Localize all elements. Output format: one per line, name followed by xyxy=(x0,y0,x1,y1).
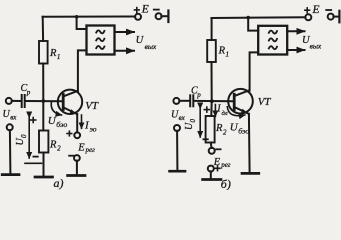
wire R2 to Ereg terminal b xyxy=(210,143,213,149)
capacitor Cp plate 1 b xyxy=(189,95,191,106)
svg-text:R: R xyxy=(218,46,226,57)
wire R1 to base junction a xyxy=(42,64,44,102)
label - of U0 b xyxy=(203,138,207,140)
wire emitter down a xyxy=(76,114,78,132)
label U0 b (rotated) xyxy=(184,119,197,131)
terminal input top circle a xyxy=(6,98,12,104)
tilde 1 box a xyxy=(96,30,104,33)
svg-text:1: 1 xyxy=(226,51,230,59)
svg-text:бэо: бэо xyxy=(56,120,67,129)
wire rail to box a xyxy=(77,17,87,29)
block filter box a xyxy=(87,26,115,55)
svg-text:0: 0 xyxy=(20,134,28,138)
pedestal bar R2 a xyxy=(35,176,53,179)
wire base to R2 b xyxy=(210,102,212,117)
arrow Ieo a xyxy=(81,115,83,128)
arrow Idl b xyxy=(214,105,216,117)
arrow output 2 b xyxy=(287,49,304,51)
pedestal bar emitter b xyxy=(242,172,259,175)
svg-text:1: 1 xyxy=(57,53,61,61)
wire stub right of -E b xyxy=(333,16,338,18)
svg-text:VT: VT xyxy=(258,96,272,108)
label + of U0 a xyxy=(31,119,36,121)
label - of E b xyxy=(326,9,331,11)
label + of E a xyxy=(135,9,140,11)
terminal Ereg bottom circle b xyxy=(208,166,214,172)
wire stub right of -E a xyxy=(161,15,167,17)
svg-text:E: E xyxy=(77,143,85,154)
capacitor Cp plate 1 a xyxy=(21,95,23,107)
junction base node a xyxy=(41,99,45,103)
svg-text:вх: вх xyxy=(179,114,186,122)
transistor VT a circle xyxy=(58,90,82,114)
svg-text:вх: вх xyxy=(10,113,17,121)
label - of U0 a xyxy=(33,156,37,158)
svg-text:2: 2 xyxy=(57,145,61,153)
label + of E b xyxy=(305,9,310,11)
svg-text:E: E xyxy=(311,4,319,16)
arrow U0 b xyxy=(199,109,201,138)
label U0 a (rotated) xyxy=(15,134,28,146)
wire emitter down b xyxy=(248,114,251,172)
terminal Ereg bottom circle a xyxy=(74,155,80,161)
arrow Ubeo curved b xyxy=(227,107,245,116)
tilde 3 box a xyxy=(96,46,104,49)
arrow output 1 a xyxy=(115,31,135,33)
junction base node b xyxy=(210,99,214,103)
transistor VT b emitter arrowhead xyxy=(241,109,249,114)
label + of U0 b xyxy=(204,109,209,111)
wire base to R2 a xyxy=(42,101,44,131)
tilde 2 box a xyxy=(96,38,104,41)
svg-text:вых: вых xyxy=(310,41,322,50)
wire rail to box b xyxy=(248,18,258,31)
transistor VT a emitter arrowhead xyxy=(70,109,78,114)
svg-text:R: R xyxy=(49,48,57,59)
terminal input bottom circle a xyxy=(7,124,13,130)
wire top rail a xyxy=(43,16,136,18)
wire top rail b xyxy=(211,16,305,19)
svg-text:рег: рег xyxy=(220,161,231,169)
svg-text:U: U xyxy=(136,35,145,46)
label - of E a xyxy=(154,9,159,11)
pedestal bar Ereg a xyxy=(68,174,85,177)
svg-text:0: 0 xyxy=(189,119,197,123)
transistor VT a emitter slant xyxy=(64,108,77,115)
wire input ground lead a xyxy=(9,130,12,173)
terminal -E circle b xyxy=(328,14,334,20)
svg-text:эо: эо xyxy=(90,124,97,133)
wire rail to R1 drop a xyxy=(42,17,44,41)
node junction on rail b xyxy=(246,16,250,20)
transistor VT b base bar xyxy=(233,94,236,109)
svg-text:вых: вых xyxy=(145,42,157,51)
tilde 2 box b xyxy=(269,38,277,41)
node junction on rail a xyxy=(75,15,79,19)
transistor VT a base bar xyxy=(62,94,65,109)
wire R2 ground lead a xyxy=(43,153,45,176)
arrow U0 a xyxy=(28,118,30,159)
resistor R2 b xyxy=(206,116,215,143)
label + of Ereg a xyxy=(67,133,72,135)
resistor R1 a xyxy=(39,41,48,64)
transistor VT b emitter slant xyxy=(235,107,249,114)
pedestal bar input b xyxy=(170,170,185,173)
capacitor Cp plate 2 b xyxy=(192,95,194,106)
transistor VT a collector slant xyxy=(64,91,78,96)
svg-text:рег: рег xyxy=(85,146,96,154)
transistor VT b collector slant xyxy=(235,90,249,95)
svg-text:VT: VT xyxy=(85,100,99,112)
terminal end bar a xyxy=(167,11,169,23)
wire Ereg ground lead b xyxy=(210,171,212,178)
svg-text:б): б) xyxy=(221,177,231,190)
transistor VT b circle xyxy=(228,89,253,114)
arrow Ubeo curved a xyxy=(51,102,61,116)
arrow output 2 a xyxy=(115,50,135,52)
arrow output 1 b xyxy=(287,30,304,32)
svg-text:а): а) xyxy=(54,176,64,190)
svg-text:p: p xyxy=(26,89,31,97)
wire box to collector b xyxy=(250,52,259,90)
svg-text:дл: дл xyxy=(222,110,228,117)
capacitor Cp plate 2 a xyxy=(24,95,26,107)
wire input to cap a xyxy=(12,100,21,102)
block filter box b xyxy=(258,26,287,55)
pedestal bar input a xyxy=(2,173,19,176)
svg-text:R: R xyxy=(49,140,57,151)
label - of Ereg a xyxy=(69,155,73,157)
wire cap to base a xyxy=(26,100,63,102)
label - of Ereg b xyxy=(216,148,220,150)
tilde 3 box b xyxy=(269,46,277,49)
wire Ereg ground lead a xyxy=(76,161,78,175)
terminal Ereg top circle b xyxy=(209,148,215,154)
terminal +E circle b xyxy=(305,14,311,20)
svg-text:R: R xyxy=(215,123,223,134)
label + of Ereg b xyxy=(215,167,220,169)
wire box to collector a xyxy=(78,50,87,91)
wire input to cap b xyxy=(179,100,189,102)
terminal end bar b xyxy=(338,11,340,22)
svg-text:2: 2 xyxy=(223,129,227,137)
terminal +E circle a xyxy=(135,14,141,20)
resistor R1 b xyxy=(207,40,216,62)
terminal -E circle a xyxy=(156,13,162,19)
pedestal bar Ereg b xyxy=(203,178,221,181)
wire rail to R1 drop b xyxy=(211,18,213,40)
wire input ground lead b xyxy=(176,131,178,170)
terminal input top circle b xyxy=(173,98,179,104)
tilde 1 box b xyxy=(269,31,277,34)
wire R1 to base junction b xyxy=(211,62,213,102)
tick U0 bottom a xyxy=(25,162,42,164)
svg-text:E: E xyxy=(141,4,149,16)
terminal input bottom circle b xyxy=(174,125,180,131)
svg-text:бэо: бэо xyxy=(238,127,249,136)
svg-text:p: p xyxy=(196,91,201,99)
resistor R2 a xyxy=(39,131,48,153)
terminal Ereg top circle a xyxy=(74,132,80,138)
wire cap to base b xyxy=(194,100,233,102)
